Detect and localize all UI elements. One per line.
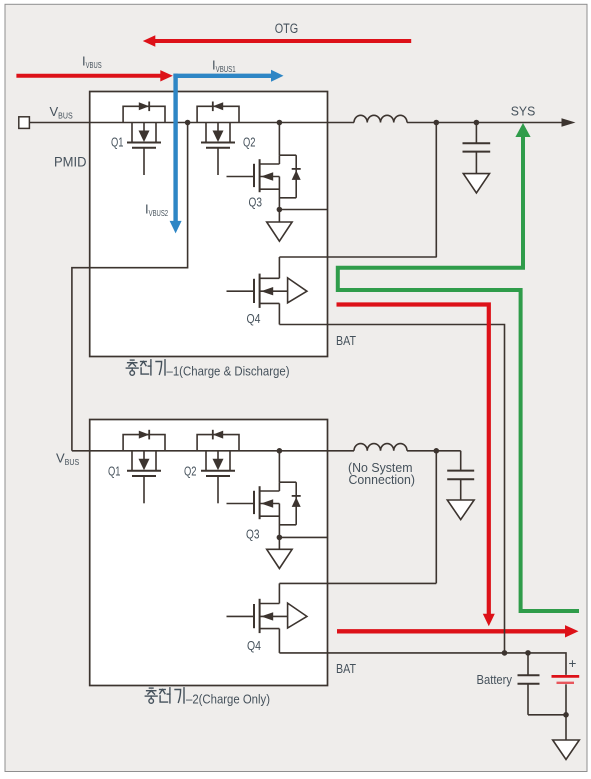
svg-text:OTG: OTG: [275, 21, 299, 36]
svg-text:Q4: Q4: [247, 311, 261, 326]
svg-text:Connection): Connection): [349, 472, 416, 487]
svg-text:Q1: Q1: [108, 463, 121, 478]
svg-text:BAT: BAT: [336, 661, 356, 676]
svg-text:–2(Charge Only): –2(Charge Only): [186, 692, 270, 707]
svg-text:PMID: PMID: [54, 154, 87, 169]
svg-text:SYS: SYS: [511, 104, 536, 119]
svg-text:BAT: BAT: [336, 333, 356, 348]
svg-text:Q2: Q2: [243, 135, 256, 150]
svg-text:Battery: Battery: [477, 672, 513, 687]
svg-text:Q1: Q1: [111, 135, 124, 150]
svg-text:Q3: Q3: [249, 195, 263, 210]
svg-text:Q4: Q4: [247, 638, 261, 653]
svg-text:Q2: Q2: [184, 463, 197, 478]
svg-text:+: +: [569, 656, 577, 671]
svg-text:–1(Charge & Discharge): –1(Charge & Discharge): [167, 364, 290, 379]
svg-text:Q3: Q3: [246, 527, 260, 542]
